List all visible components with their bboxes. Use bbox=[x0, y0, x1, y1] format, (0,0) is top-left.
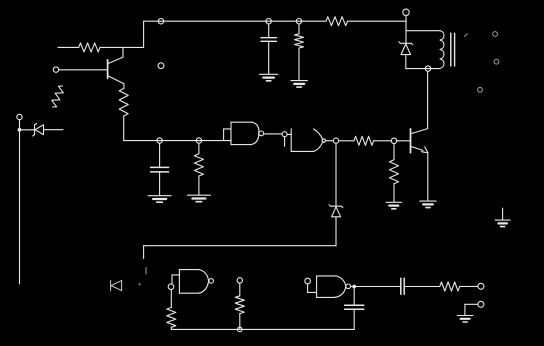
resistor R4 bbox=[326, 17, 348, 26]
junction node bbox=[18, 128, 22, 132]
U1B output bubble bbox=[322, 139, 325, 142]
wire U1D output bbox=[351, 286, 401, 288]
transistor Q1 bbox=[108, 47, 124, 88]
input terminal J1 bbox=[17, 114, 22, 119]
U1C output bubble bbox=[209, 279, 214, 284]
node at transformer bottom bbox=[425, 66, 430, 71]
node on rail at C1 branch bbox=[158, 19, 163, 24]
wire D2 to bottom node bbox=[405, 55, 407, 69]
wire U1C input down to R8 bbox=[170, 290, 172, 308]
diode D4 (pointing left) bbox=[111, 281, 122, 291]
wire R1 right lead to rail corner bbox=[100, 46, 144, 48]
wire node to U1B bbox=[287, 133, 291, 135]
wire U1B output bbox=[325, 140, 333, 142]
wire U1A output bbox=[264, 133, 282, 135]
resistor R9 bbox=[235, 296, 244, 314]
wire base of Q1 bbox=[59, 69, 107, 71]
wire C4 to R10 bbox=[404, 286, 440, 288]
wire R9 to rail bbox=[239, 314, 241, 330]
ground under C2 bbox=[148, 196, 171, 203]
ground under R7 bbox=[386, 202, 402, 209]
wire node to R5 bbox=[198, 143, 200, 154]
wire feedback line bbox=[144, 245, 336, 247]
wire primary bottom bbox=[406, 68, 440, 70]
output terminal 2 bbox=[478, 301, 484, 307]
wire node to R6 bbox=[339, 140, 354, 142]
ground under R5 bbox=[187, 195, 210, 202]
ground under Q2 emitter bbox=[420, 201, 436, 208]
transformer T1 primary winding bbox=[440, 31, 444, 69]
wire R8 to bottom rail bbox=[170, 327, 172, 329]
resistor R3 bbox=[295, 34, 304, 48]
wire node to R7 bbox=[393, 144, 395, 160]
node at U1A output bbox=[282, 132, 287, 137]
resistor R6 bbox=[354, 136, 374, 145]
R9 top terminal bbox=[237, 278, 242, 283]
wire top supply rail right part bbox=[348, 20, 406, 22]
node at R5 bbox=[196, 138, 201, 143]
resistor R10 bbox=[440, 282, 460, 291]
U1A output bubble bbox=[259, 131, 264, 136]
NAND gate U1C bbox=[179, 270, 208, 294]
wire feedback stub down bbox=[143, 246, 145, 259]
zener diode D3 bbox=[329, 205, 343, 217]
capacitor C2 bbox=[151, 143, 169, 195]
secondary terminal 3 bbox=[478, 87, 483, 92]
wire supply down bbox=[405, 16, 407, 44]
wire R3 to ground bbox=[298, 48, 300, 80]
diode D1 (zener, pointing left) bbox=[33, 124, 44, 136]
transformer secondary tick bbox=[465, 34, 468, 37]
ground under C1 bbox=[259, 74, 278, 81]
transistor Q2 bbox=[411, 71, 428, 200]
wire base of Q2 bbox=[397, 140, 410, 142]
wire Q1 emitter bus bbox=[124, 140, 231, 142]
U1D input terminal bbox=[305, 278, 311, 284]
resistor R1 bbox=[79, 43, 100, 52]
resistor R5 bbox=[194, 154, 203, 176]
faint dot bbox=[139, 283, 141, 285]
wire junction to D1 bbox=[21, 129, 35, 131]
wire node down to D3 bbox=[335, 143, 337, 206]
junction at C3 bbox=[352, 285, 356, 289]
zener diode D2 bbox=[399, 42, 413, 55]
wire R7 to ground bbox=[393, 184, 395, 202]
resistor R2 (diagonal) bbox=[52, 86, 64, 107]
U1C input node circle bbox=[168, 284, 174, 290]
wire terminal to R9 bbox=[239, 283, 241, 296]
faint stub segment bbox=[145, 268, 147, 275]
floating ground bbox=[495, 220, 510, 227]
wire emitter resistor to bus bbox=[123, 116, 125, 141]
resistor R7 bbox=[390, 160, 399, 184]
wire primary top bbox=[406, 30, 440, 32]
supply terminal bbox=[403, 9, 409, 15]
stub below node bbox=[284, 137, 286, 147]
secondary terminal 2 bbox=[494, 59, 499, 64]
wire rail riser bbox=[143, 21, 145, 47]
U1D output bubble bbox=[346, 284, 351, 289]
NAND gate U1C input bracket bbox=[172, 275, 179, 284]
ground under R3 bbox=[291, 81, 308, 88]
capacitor C3 bbox=[345, 287, 364, 330]
secondary terminal 1 bbox=[493, 32, 498, 37]
node at gate U1B output bbox=[333, 138, 338, 143]
NAND gate U1D bbox=[317, 276, 346, 298]
wire R10 to output terminal bbox=[460, 285, 478, 287]
NAND gate U1A bbox=[231, 122, 259, 144]
capacitor C1 bbox=[261, 24, 277, 74]
transformer T1 core bbox=[451, 33, 455, 66]
node on rail at R3 bbox=[296, 19, 301, 24]
wire D3 down bbox=[335, 217, 337, 246]
wire stub to floating ground bbox=[502, 208, 504, 219]
ground at output bbox=[457, 316, 473, 323]
wire R1 left lead bbox=[58, 46, 79, 48]
wire terminal to junction bbox=[19, 120, 21, 129]
wire D1 to right bbox=[44, 129, 64, 131]
NAND gate U1A input bracket bbox=[224, 129, 231, 141]
node R9 on rail bbox=[238, 327, 243, 332]
wire top supply rail bbox=[144, 20, 326, 22]
wire input bus down left side bbox=[19, 131, 21, 284]
wire bottom rail bbox=[171, 328, 354, 330]
wire U1D input bbox=[308, 284, 317, 293]
resistor R8 bbox=[167, 308, 176, 328]
wire rail to R3 bbox=[298, 24, 300, 34]
NAND gate U1B bbox=[291, 129, 323, 152]
output terminal 1 bbox=[478, 283, 484, 289]
node B (base terminal circle of Q1) bbox=[53, 67, 58, 72]
resistor R1e (Q1 emitter) bbox=[119, 89, 128, 117]
wire R6 to node bbox=[374, 140, 392, 142]
node on rail at C1 bbox=[266, 19, 271, 24]
wire output 2 to ground bbox=[465, 304, 478, 315]
node at Q2 base / R7 bbox=[391, 138, 396, 143]
capacitor C4 (series) bbox=[401, 278, 404, 294]
node at C2 bbox=[157, 138, 162, 143]
node marker (floating circle) bbox=[158, 63, 164, 69]
wire R5 to ground bbox=[198, 176, 200, 195]
